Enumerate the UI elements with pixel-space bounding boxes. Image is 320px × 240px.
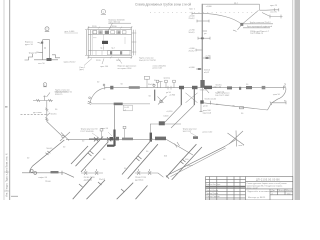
svg-text:трап 100: трап 100 [100,66,109,68]
svg-text:Инв. N подл. Подп. и дата Вз: Инв. N подл. Подп. и дата Взам. инв. N [6,153,9,197]
svg-text:+0,900: +0,900 [169,95,176,97]
svg-text:Труба стальная 25х3,2: Труба стальная 25х3,2 [250,22,272,24]
svg-text:чугунный: чугунный [203,111,212,114]
svg-text:+4,800: +4,800 [206,6,213,8]
svg-text:ДП-2105.00.00 ВК: ДП-2105.00.00 ВК [256,179,280,182]
svg-text:ду=50мм: ду=50мм [84,180,93,182]
svg-text:+0,800: +0,800 [189,67,196,69]
svg-text:ПУ-60: ПУ-60 [45,181,51,183]
svg-text:ГОСТ 6942-80: ГОСТ 6942-80 [81,131,95,133]
svg-text:+1,200: +1,200 [205,55,212,57]
svg-text:глуб. 300 мм: глуб. 300 мм [108,22,120,24]
svg-text:сгон 25: сгон 25 [270,12,278,14]
svg-text:Лист 1: Лист 1 [189,9,196,11]
svg-text:100 ГОСТ: 100 ГОСТ [183,131,193,133]
svg-text:трап 50: трап 50 [273,94,281,96]
svg-text:Масшт: Масшт [286,190,292,192]
svg-text:Изм Кол Лист Ндок: Изм Кол Лист Ндок [206,184,220,186]
svg-text:уклон 0,01: уклон 0,01 [153,68,164,70]
svg-text:Схема дренажных трубок зоны с: Схема дренажных трубок зоны с м-ой [135,2,191,6]
svg-text:ду=50мм: ду=50мм [135,180,144,182]
svg-text:Труба 50: Труба 50 [29,52,38,54]
svg-text:50х3,5 и0,02: 50х3,5 и0,02 [205,99,217,101]
svg-text:кран 25: кран 25 [270,5,278,7]
svg-text:Институт гр. ВК-51: Институт гр. ВК-51 [248,197,266,199]
svg-text:нип. 50: нип. 50 [38,63,46,65]
svg-text:ГОСТ 8946-75: ГОСТ 8946-75 [250,33,264,35]
svg-text:уклон 0,02: уклон 0,02 [203,131,214,133]
svg-text:25х3,2: 25х3,2 [99,179,106,181]
svg-text:50х3,5: 50х3,5 [51,113,58,115]
svg-text:по серии 4.904: по серии 4.904 [118,68,133,70]
svg-text:Водоснабж. и канализация: Водоснабж. и канализация [248,191,273,193]
svg-text:100 ГОСТ 6942: 100 ГОСТ 6942 [215,95,230,97]
svg-text:зоны с м-ой: зоны с м-ой [247,187,258,190]
svg-text:трап 50: трап 50 [101,128,109,130]
svg-text:вып.1: вып.1 [239,145,245,147]
svg-text:50х3,5: 50х3,5 [46,148,53,150]
svg-text:Лит: Лит [272,190,275,192]
svg-text:Разраб Иванов: Разраб Иванов [206,190,218,192]
svg-text:Кран проходной муфтовый: Кран проходной муфтовый [247,25,272,28]
svg-text:50х3,5: 50х3,5 [200,89,207,91]
svg-text:3262-75: 3262-75 [55,94,63,96]
svg-text:0,000: 0,000 [163,115,169,117]
svg-text:ур.ч.пола: ур.ч.пола [33,112,43,114]
svg-text:(дет.): (дет.) [79,69,84,71]
svg-text:+0,150: +0,150 [166,111,173,113]
svg-text:ур.з.: ур.з. [234,2,239,4]
svg-text:50х3,5: 50х3,5 [148,84,155,86]
svg-text:уп: уп [233,105,235,107]
svg-text:пробка: пробка [164,77,171,79]
svg-text:труба 25х3,2: труба 25х3,2 [64,62,77,64]
svg-text:сифон 50: сифон 50 [38,176,48,179]
svg-text:Масса: Масса [279,190,286,192]
svg-text:25х3,2: 25х3,2 [189,18,196,20]
svg-text:50х3,5 ГОСТ 8732: 50х3,5 ГОСТ 8732 [139,60,157,62]
svg-text:50х3,5: 50х3,5 [189,32,196,34]
svg-text:Н.контр Сидоров: Н.контр Сидоров [206,196,219,198]
svg-text:25х3,2: 25х3,2 [189,51,196,53]
svg-text:Провер Петров: Провер Петров [206,193,218,195]
svg-text:и0,02: и0,02 [204,72,210,74]
svg-text:дрен. 50: дрен. 50 [25,44,34,46]
svg-text:сифон 50: сифон 50 [212,86,222,89]
svg-text:уклон: уклон [188,165,193,167]
